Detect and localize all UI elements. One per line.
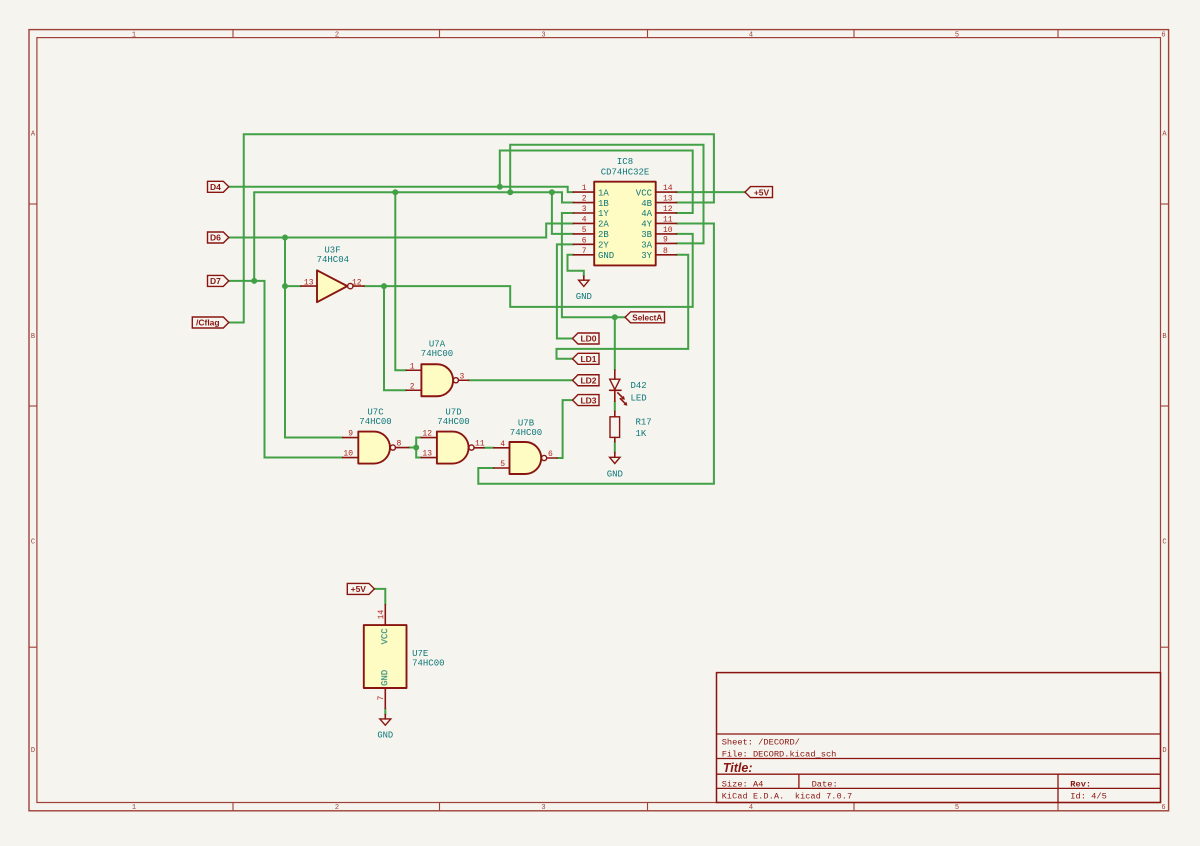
svg-text:74HC04: 74HC04 [317, 255, 349, 265]
output label LD1 [573, 353, 600, 364]
LED D42 [610, 370, 647, 406]
IC8 pin 11 4Y [641, 215, 676, 229]
IC IC8 CD74HC32E [594, 157, 656, 265]
resistor R17 1K [610, 411, 652, 441]
wire U7B output to LD3 [557, 400, 573, 458]
junction SelectA to LED [612, 314, 618, 320]
wire /Cflag to IC8 pin 13 4B [229, 134, 714, 322]
svg-text:1K: 1K [636, 429, 647, 439]
wire U7C output junction [409, 447, 417, 449]
title block [717, 673, 1161, 803]
power label +5V at IC8 [745, 187, 773, 198]
svg-text:13: 13 [304, 278, 314, 287]
ground symbol below R17 [607, 452, 623, 479]
svg-text:LD1: LD1 [580, 354, 596, 364]
svg-text:Title:: Title: [723, 761, 753, 775]
svg-text:IC8: IC8 [617, 157, 633, 167]
wire U3F output to U7A pin 2 [384, 286, 406, 390]
svg-text:File: DECORD.kicad_sch: File: DECORD.kicad_sch [722, 749, 837, 759]
svg-text:3: 3 [460, 372, 465, 381]
svg-text:Sheet: /DECORD/: Sheet: /DECORD/ [722, 738, 800, 748]
svg-text:3: 3 [541, 804, 545, 812]
svg-text:5: 5 [582, 226, 587, 235]
wire U7A output to LD2 [469, 379, 573, 381]
svg-text:GND: GND [380, 670, 390, 686]
svg-text:D: D [1162, 747, 1166, 755]
svg-text:1B: 1B [598, 199, 609, 209]
svg-text:D6: D6 [210, 233, 221, 243]
junction on D7 wire [251, 278, 257, 284]
U7E pin name VCC [380, 628, 390, 645]
IC8 pin 8 3Y [641, 247, 676, 261]
NAND gate U7D 74HC00 [421, 408, 485, 464]
wire D7 net to IC8 pin 2 1B [254, 192, 573, 202]
svg-text:74HC00: 74HC00 [510, 428, 542, 438]
wire LED D42 cathode to R17 [614, 401, 616, 411]
svg-text:D4: D4 [210, 182, 221, 192]
NAND gate U7B 74HC00 [494, 419, 557, 475]
svg-text:CD74HC32E: CD74HC32E [601, 168, 650, 178]
wire D7 net to U7A pin 1 [395, 192, 406, 370]
svg-text:VCC: VCC [380, 628, 390, 645]
svg-text:11: 11 [475, 440, 485, 449]
svg-text:Size: A4: Size: A4 [722, 779, 764, 789]
svg-text:Rev:: Rev: [1070, 779, 1091, 789]
wire U3F output to IC8 pin 10 3B [364, 234, 693, 307]
wire IC8 pin 11 4Y to U7B pin 5 [478, 223, 714, 483]
svg-text:2: 2 [582, 195, 587, 204]
wire +5V to U7E pin 14 [374, 589, 385, 605]
svg-text:Id: 4/5: Id: 4/5 [1070, 792, 1107, 802]
svg-text:C: C [31, 538, 35, 546]
svg-text:7: 7 [582, 247, 587, 256]
svg-text:LD3: LD3 [580, 395, 596, 405]
input label D7 [208, 275, 229, 286]
svg-text:VCC: VCC [636, 188, 653, 198]
ground symbol below IC8 [576, 276, 592, 302]
svg-text:1Y: 1Y [598, 209, 609, 219]
svg-text:12: 12 [422, 430, 432, 439]
svg-text:5: 5 [955, 804, 959, 812]
svg-text:B: B [1162, 333, 1166, 341]
svg-text:13: 13 [663, 195, 673, 204]
IC8 pin 7 GND [573, 247, 614, 261]
ground symbol below U7E [377, 715, 393, 741]
junction on D6 wire [282, 235, 288, 241]
svg-text:8: 8 [397, 440, 402, 449]
svg-text:74HC00: 74HC00 [437, 417, 469, 427]
svg-text:U7E: U7E [412, 649, 428, 659]
NAND gate U7C 74HC00 [343, 408, 409, 464]
svg-text:LD2: LD2 [580, 375, 596, 385]
svg-text:11: 11 [663, 215, 673, 224]
svg-text:2: 2 [335, 804, 339, 812]
input label D6 [208, 232, 229, 243]
svg-text:3A: 3A [641, 241, 652, 251]
wire R17 to ground [614, 442, 616, 453]
wire D4 net to IC8 pin 12 4A [500, 151, 693, 213]
junction at U3F output [381, 283, 387, 289]
svg-text:B: B [31, 333, 35, 341]
svg-text:2Y: 2Y [598, 241, 609, 251]
svg-text:4: 4 [749, 32, 753, 40]
svg-text:74HC00: 74HC00 [412, 659, 444, 669]
wire D6 to IC8 pin 4 2A [229, 223, 573, 237]
junction D7 net to 3A riser [507, 189, 513, 195]
U7E pin number 7 [377, 696, 386, 701]
junction at U3F input [282, 283, 288, 289]
junction D7 net to U7A [392, 189, 398, 195]
svg-text:U3F: U3F [324, 246, 340, 256]
U7E pin name GND [380, 670, 390, 686]
svg-text:7: 7 [377, 696, 386, 701]
svg-text:D7: D7 [210, 276, 221, 286]
svg-text:D42: D42 [631, 381, 647, 391]
svg-text:GND: GND [598, 251, 614, 261]
svg-text:C: C [1162, 538, 1166, 546]
IC8 pin 4 2A [573, 215, 609, 229]
svg-text:D: D [31, 747, 35, 755]
svg-text:U7B: U7B [518, 419, 535, 429]
svg-text:GND: GND [607, 469, 623, 479]
svg-text:9: 9 [348, 430, 353, 439]
IC8 pin 12 4A [641, 205, 676, 219]
wire D6 net to U3F pin 13 [285, 285, 301, 287]
svg-text:4: 4 [500, 440, 505, 449]
svg-text:12: 12 [663, 205, 673, 214]
svg-text:3Y: 3Y [641, 251, 652, 261]
output label SelectA [625, 312, 664, 323]
IC8 pin 14 VCC [636, 184, 677, 198]
svg-text:LD0: LD0 [580, 334, 596, 344]
IC8 pin 10 3B [641, 226, 676, 240]
svg-text:10: 10 [343, 450, 353, 459]
svg-text:+5V: +5V [351, 584, 367, 594]
IC8 pin 6 2Y [573, 236, 609, 250]
svg-text:2B: 2B [598, 230, 609, 240]
svg-text:3B: 3B [641, 230, 652, 240]
IC8 pin 5 2B [573, 226, 609, 240]
NAND gate U7A 74HC00 [406, 340, 468, 397]
wire SelectA net to LED D42 anode [614, 317, 616, 370]
svg-text:6: 6 [1161, 32, 1165, 40]
svg-text:GND: GND [377, 731, 393, 741]
wire D7 net to IC8 pin 5 2B [552, 192, 573, 234]
svg-text:U7D: U7D [445, 408, 461, 418]
IC8 pin 9 3A [641, 235, 676, 250]
svg-text:14: 14 [663, 184, 673, 193]
svg-text:1: 1 [582, 184, 587, 193]
svg-text:5: 5 [955, 32, 959, 40]
U7E pin number 14 [377, 609, 386, 619]
svg-text:4A: 4A [641, 209, 652, 219]
junction D7 net to 2B drop [549, 189, 555, 195]
svg-text:LED: LED [631, 393, 647, 403]
svg-text:3: 3 [541, 32, 545, 40]
svg-text:1A: 1A [598, 188, 609, 198]
svg-text:10: 10 [663, 226, 673, 235]
svg-text:74HC00: 74HC00 [421, 349, 453, 359]
wire U7C output to U7D pin 13 [416, 448, 421, 458]
svg-text:R17: R17 [636, 417, 652, 427]
inverter U3F 74HC04 [301, 246, 364, 303]
svg-text:6: 6 [582, 236, 587, 245]
junction U7C output [413, 445, 419, 451]
input label D4 [208, 181, 229, 192]
power unit U7E 74HC00 [364, 605, 445, 709]
svg-text:Date:: Date: [812, 779, 838, 789]
input label /Cflag [192, 317, 229, 328]
svg-text:1: 1 [132, 32, 136, 40]
svg-text:4: 4 [582, 215, 587, 224]
svg-text:2: 2 [410, 382, 415, 391]
wire D7 net to IC8 pin 9 3A [510, 145, 703, 244]
IC8 pin 2 1B [573, 195, 609, 209]
svg-text:6: 6 [548, 450, 553, 459]
output label LD2 [573, 375, 600, 386]
junction on D4 wire [497, 184, 503, 190]
wire D7 net vertical riser [253, 192, 255, 281]
wire IC8 pin 6 2Y to LD0 [557, 244, 573, 338]
svg-text:+5V: +5V [754, 187, 770, 197]
wire IC8 pin 8 3Y to LD1 [557, 255, 689, 359]
svg-text:4: 4 [749, 804, 753, 812]
wire IC8 pin 14 VCC to +5V [677, 191, 745, 193]
wire D4 to IC8 pin 1A [229, 187, 573, 192]
wire D7 to U7C pin 10 [229, 281, 343, 458]
wire U7E pin 7 to ground [384, 708, 386, 714]
svg-text:1: 1 [132, 804, 136, 812]
svg-text:KiCad E.D.A. kicad 7.0.7: KiCad E.D.A. kicad 7.0.7 [722, 792, 853, 802]
IC8 pin 1 1A [573, 184, 609, 198]
svg-text:8: 8 [663, 247, 668, 256]
svg-text:SelectA: SelectA [632, 314, 662, 323]
IC8 pin 13 4B [641, 195, 676, 209]
svg-text:14: 14 [377, 609, 386, 619]
svg-text:GND: GND [576, 292, 592, 302]
svg-text:U7A: U7A [429, 340, 446, 350]
svg-text:3: 3 [582, 205, 587, 214]
output label LD3 [573, 395, 600, 406]
wire D6 net to U7C pin 9 [285, 238, 343, 438]
svg-text:2: 2 [335, 32, 339, 40]
IC8 pin 3 1Y [573, 205, 609, 219]
svg-text:4Y: 4Y [641, 220, 652, 230]
wire IC8 pin 7 GND to ground [568, 255, 584, 276]
svg-text:12: 12 [352, 278, 362, 287]
svg-text:5: 5 [500, 460, 505, 469]
svg-text:4B: 4B [641, 199, 652, 209]
svg-text:6: 6 [1161, 804, 1165, 812]
svg-text:9: 9 [663, 235, 668, 244]
svg-text:13: 13 [422, 450, 432, 459]
wire U7C output to U7D pin 12 [416, 438, 421, 448]
svg-text:2A: 2A [598, 220, 609, 230]
power label +5V at U7E [347, 583, 374, 594]
wire U7D output to U7B pin 4 [484, 447, 494, 449]
output label LD0 [573, 333, 600, 344]
svg-text:U7C: U7C [367, 408, 384, 418]
svg-text:/Cflag: /Cflag [196, 318, 220, 328]
svg-text:1: 1 [410, 362, 415, 371]
svg-text:74HC00: 74HC00 [359, 417, 391, 427]
wire IC8 pin 3 1Y to SelectA [562, 213, 625, 317]
